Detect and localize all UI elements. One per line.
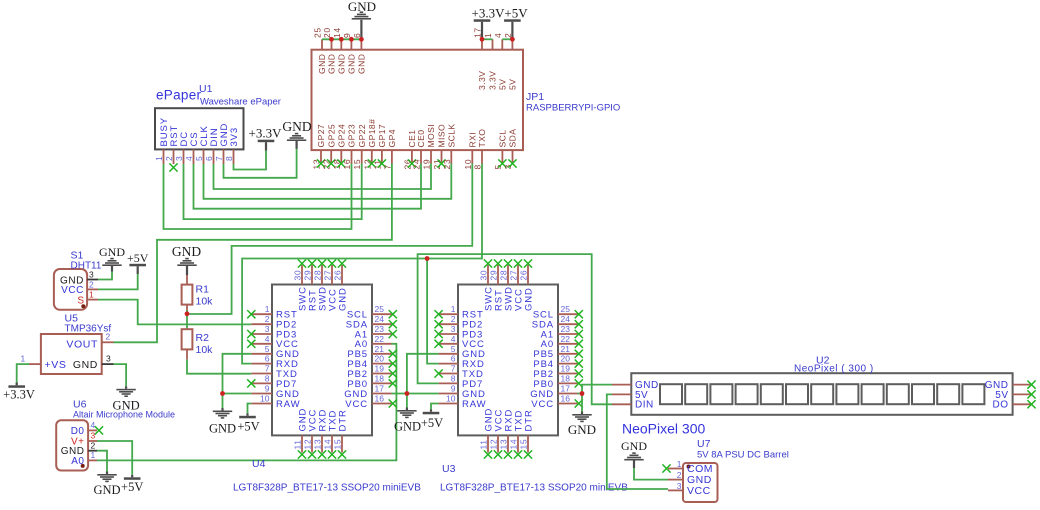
wire U1 GND to ground — [224, 149, 297, 178]
svg-text:4: 4 — [184, 156, 194, 161]
U3 pin 12 VCC (no-connect X) — [497, 435, 499, 452]
svg-text:10k: 10k — [196, 296, 214, 308]
svg-text:GND: GND — [337, 287, 348, 311]
wire JP1 TXO to U4 RXD and U3 RXD — [242, 164, 482, 364]
svg-text:NeoPixel ( 300 ): NeoPixel ( 300 ) — [794, 364, 874, 375]
U3 pin 15 DTR (no-connect X) — [527, 435, 529, 452]
junction R1-R2 divider — [185, 311, 190, 316]
svg-text:28: 28 — [313, 270, 323, 281]
JP1 bottom pin 18 GP24 (no-connect X) — [340, 150, 342, 163]
U4 pin 3 PD3 — [251, 333, 272, 335]
svg-text:+5V: +5V — [421, 416, 443, 430]
svg-text:1: 1 — [483, 33, 493, 38]
wire JP1 3.3V bus — [482, 38, 493, 40]
U3 pin 4 VCC — [439, 343, 458, 345]
JP1 top pin 9 GND — [350, 39, 352, 49]
wire JP1 top GND bus — [322, 38, 361, 40]
U3 pin 27 VCC (no-connect X) — [517, 265, 519, 285]
svg-text:10: 10 — [446, 394, 456, 404]
svg-text:2: 2 — [677, 470, 682, 480]
wire U4 GND pins to ground — [223, 354, 252, 408]
svg-text:8: 8 — [224, 156, 234, 161]
svg-text:GND: GND — [172, 244, 201, 259]
U5 pin 2 VOUT — [102, 341, 114, 343]
U2 pin 5V (right, no-connect X) — [1013, 393, 1031, 395]
U2 pin DO (right, no-connect X) — [1013, 403, 1031, 405]
JP1 top pin 6 GND — [360, 39, 362, 49]
svg-text:JP1: JP1 — [526, 91, 544, 103]
U4 pin 28 SWD (no-connect X) — [321, 265, 323, 285]
U2 pin DIN (left) — [612, 403, 631, 405]
JP1 bottom pin 3 SDA (no-connect X) — [512, 150, 514, 163]
svg-text:SDA: SDA — [508, 129, 518, 148]
svg-text:VOUT: VOUT — [66, 338, 98, 350]
U3 pin 21 PB5 — [558, 353, 578, 355]
U4 pin 9 GND — [251, 393, 272, 395]
svg-text:DO: DO — [993, 400, 1009, 411]
svg-text:2: 2 — [106, 332, 111, 342]
JP1 bottom pin 11 GP17 (no-connect X) — [381, 150, 383, 163]
wire U6 V+ to +5V — [97, 441, 132, 475]
JP1 bottom pin 12 GP18# (no-connect X) — [371, 150, 373, 163]
wire U1 BUSY to JP1 GP23 — [164, 164, 352, 230]
svg-text:GP4: GP4 — [387, 129, 397, 147]
svg-text:GP23: GP23 — [347, 124, 357, 148]
svg-text:26: 26 — [333, 270, 343, 281]
svg-text:U7: U7 — [697, 438, 711, 450]
svg-text:GP24: GP24 — [337, 124, 347, 148]
wire U5 GND to ground — [114, 364, 127, 386]
svg-text:GP22: GP22 — [357, 124, 367, 148]
svg-text:GND: GND — [568, 422, 596, 437]
svg-text:DTR: DTR — [337, 409, 348, 431]
U3 pin 1 RST — [439, 313, 458, 315]
IC U3 LGT8F328P body — [458, 285, 558, 436]
svg-text:MOSI: MOSI — [426, 124, 436, 148]
svg-text:+3.3V: +3.3V — [472, 6, 506, 21]
junction NeoPixel GND — [580, 391, 585, 396]
svg-text:CE0: CE0 — [416, 130, 426, 148]
wire U6 A0 to U4 A0 — [97, 344, 396, 461]
U3 pin 24 SDA — [558, 323, 578, 325]
U4 pin 21 PB5 — [372, 353, 392, 355]
svg-text:GND: GND — [282, 119, 311, 134]
svg-text:7: 7 — [214, 156, 224, 161]
svg-text:27: 27 — [509, 270, 519, 281]
JP1 top pin 1 3.3V — [492, 39, 494, 49]
U3 pin 5 GND — [439, 353, 458, 355]
U4 pin 15 DTR (no-connect X) — [341, 435, 343, 452]
JP1 bottom pin 24 CE0 — [420, 150, 422, 163]
U3 pin 30 SWC (no-connect X) — [487, 265, 489, 285]
U4 pin 8 PD7 — [251, 382, 272, 384]
U4 pin 20 PB4 — [372, 363, 392, 365]
svg-text:9: 9 — [451, 384, 456, 394]
U7 pin 2 GND — [668, 479, 683, 481]
svg-text:GND: GND — [347, 54, 357, 74]
JP1 top pin 2 5V — [511, 39, 513, 49]
ground symbol GND (below U4) — [221, 408, 223, 411]
svg-text:19: 19 — [561, 364, 571, 374]
svg-text:GND: GND — [209, 422, 236, 436]
svg-text:27: 27 — [323, 270, 333, 281]
svg-text:5: 5 — [451, 344, 456, 354]
JP1 bottom pin 10 RXI — [471, 150, 473, 163]
svg-text:GND: GND — [357, 54, 367, 74]
svg-text:15: 15 — [352, 159, 362, 170]
U6 pin 2 GND — [88, 450, 97, 452]
svg-text:14: 14 — [332, 27, 342, 38]
svg-text:SCLK: SCLK — [447, 123, 457, 147]
svg-text:GND: GND — [317, 54, 327, 74]
U3 pin 20 PB4 — [558, 363, 578, 365]
junction U4 GND — [220, 391, 225, 396]
svg-text:3.3V: 3.3V — [488, 71, 498, 90]
svg-text:VCC: VCC — [345, 399, 368, 410]
U3 pin 9 GND — [439, 393, 458, 395]
svg-text:12: 12 — [489, 439, 499, 450]
U6 pin1 marker dot — [81, 464, 85, 468]
wire U1 CS to JP1 CE0 — [194, 164, 422, 209]
wire U2 GND to U3 GND pin 17 and ground — [582, 385, 612, 412]
wire U5 +VS to +3.3V — [17, 364, 29, 385]
S1 pin1 marker dot — [81, 304, 85, 308]
wire U1 DIN to JP1 MOSI — [214, 164, 432, 190]
U1 pin 1 BUSY — [163, 149, 165, 164]
wire U3 PD7 to NeoPixel DIN — [418, 254, 612, 404]
svg-text:+5V: +5V — [237, 420, 259, 434]
power symbol +5V (left of U3) — [430, 410, 432, 412]
U4 pin 1 RST — [251, 313, 272, 315]
U3 pin 13 RXD (no-connect X) — [507, 435, 509, 452]
U1 pin 4 CS — [193, 149, 195, 164]
svg-text:D0: D0 — [71, 426, 85, 437]
junction mid GND — [405, 391, 410, 396]
JP1 bottom pin 5 SCL (no-connect X) — [501, 150, 503, 163]
U3 pin 14 TXD (no-connect X) — [517, 435, 519, 452]
U3 pin 26 GND (no-connect X) — [527, 265, 529, 285]
svg-text:GP17: GP17 — [377, 124, 387, 148]
svg-text:10k: 10k — [196, 344, 214, 356]
svg-text:U3: U3 — [442, 463, 456, 475]
svg-text:18: 18 — [375, 373, 385, 383]
JP1 top pin 20 GND — [331, 39, 333, 49]
svg-text:22: 22 — [561, 334, 571, 344]
svg-text:30: 30 — [293, 270, 303, 281]
svg-text:25: 25 — [375, 304, 385, 314]
svg-text:23: 23 — [375, 324, 385, 334]
svg-text:ePaper: ePaper — [156, 88, 202, 103]
U2 pin GND (left) — [612, 384, 631, 386]
svg-text:GP25: GP25 — [326, 124, 336, 148]
svg-text:+VS: +VS — [45, 359, 67, 371]
U4 pin 19 PB2 — [372, 373, 392, 375]
svg-text:7: 7 — [265, 364, 270, 374]
U3 pin 17 GND — [558, 393, 578, 395]
U4 pin 10 RAW — [251, 403, 272, 405]
svg-text:19: 19 — [422, 159, 432, 170]
svg-text:VCC: VCC — [687, 485, 711, 497]
svg-text:2: 2 — [265, 314, 270, 324]
U7 pin 3 VCC — [668, 489, 683, 491]
U7 pin1 marker dot — [687, 465, 691, 469]
svg-text:GP18#: GP18# — [367, 119, 377, 148]
svg-text:19: 19 — [375, 364, 385, 374]
svg-text:8: 8 — [473, 164, 483, 169]
svg-text:SCL: SCL — [498, 130, 508, 148]
svg-text:9: 9 — [265, 384, 270, 394]
ground symbol GND (below U3 pin17) — [581, 412, 583, 415]
svg-text:2: 2 — [89, 280, 94, 290]
junction 3.3V bus — [480, 37, 485, 42]
U4 pin 12 VCC (no-connect X) — [311, 435, 313, 452]
svg-text:25: 25 — [561, 304, 571, 314]
U6 pin 3 V+ — [88, 440, 97, 442]
JP1 bottom pin 19 MOSI — [430, 150, 432, 163]
U4 pin 2 PD2 — [251, 323, 272, 325]
U4 pin 29 RST (no-connect X) — [311, 265, 313, 285]
U3 pin 3 PD3 — [439, 333, 458, 335]
U5 pin 1 +VS — [29, 363, 41, 365]
svg-text:6: 6 — [204, 156, 214, 161]
wire S1 GND to ground — [98, 272, 112, 280]
svg-text:4: 4 — [493, 33, 503, 38]
svg-text:3: 3 — [174, 156, 184, 161]
svg-text:21: 21 — [375, 344, 385, 354]
U2 pin 5V (left) — [612, 393, 631, 395]
svg-text:2: 2 — [451, 314, 456, 324]
svg-text:29: 29 — [489, 270, 499, 281]
U2 pin GND (right, no-connect X) — [1013, 384, 1031, 386]
U4 pin 4 VCC — [251, 343, 272, 345]
sensor U5 TMP36Ysf body — [41, 334, 102, 374]
svg-text:16: 16 — [375, 394, 385, 404]
U4 pin 25 SCL — [372, 313, 392, 315]
svg-text:5: 5 — [265, 344, 270, 354]
U4 pin 23 A1 — [372, 333, 392, 335]
svg-text:GND: GND — [327, 54, 337, 74]
JP1 top pin 25 GND — [321, 39, 323, 49]
JP1 bottom pin 26 CE1 (no-connect X) — [411, 150, 413, 163]
wire U7 GND to ground — [634, 468, 668, 480]
U5 pin 3 GND — [102, 363, 114, 365]
svg-text:12: 12 — [303, 439, 313, 450]
wire R2 to U4 TXD — [187, 360, 251, 374]
svg-text:DHT11: DHT11 — [71, 261, 102, 272]
resistor R1 — [186, 275, 188, 285]
wire U2 5V to U7 VCC — [607, 394, 668, 489]
svg-text:3: 3 — [265, 324, 270, 334]
svg-text:GND: GND — [99, 245, 125, 259]
S1 pin 1 S — [87, 299, 98, 301]
U3 pin 6 RXD — [439, 363, 458, 365]
svg-text:VCC: VCC — [531, 399, 554, 410]
svg-text:+5V: +5V — [121, 480, 143, 494]
U4 pin 22 A0 — [372, 343, 392, 345]
JP1 top pin 14 GND — [340, 39, 342, 49]
U3 pin 28 SWD (no-connect X) — [507, 265, 509, 285]
wire U3 RAW to +5V — [431, 404, 439, 410]
svg-text:8: 8 — [265, 373, 270, 383]
svg-text:30: 30 — [479, 270, 489, 281]
JP1 top pin 17 3.3V — [481, 39, 483, 49]
svg-text:GND: GND — [523, 287, 534, 311]
svg-text:14: 14 — [509, 439, 519, 450]
svg-text:28: 28 — [499, 270, 509, 281]
svg-text:24: 24 — [561, 314, 571, 324]
svg-text:U1: U1 — [199, 83, 213, 95]
svg-text:14: 14 — [323, 439, 333, 450]
svg-text:+5V: +5V — [127, 251, 149, 265]
svg-text:GND: GND — [337, 54, 347, 74]
U3 pin 19 PB2 — [558, 373, 578, 375]
U4 pin 6 RXD — [251, 363, 272, 365]
module U6 Altair Microphone body — [56, 420, 88, 470]
JP1 bottom pin 22 GP25 (no-connect X) — [330, 150, 332, 163]
svg-text:U4: U4 — [252, 458, 266, 470]
U4 pin 30 SWC (no-connect X) — [301, 265, 303, 285]
U3 pin 29 RST (no-connect X) — [497, 265, 499, 285]
svg-text:11: 11 — [293, 439, 303, 449]
U4 pin 13 RXD (no-connect X) — [321, 435, 323, 452]
U4 pin 27 VCC (no-connect X) — [331, 265, 333, 285]
svg-text:2: 2 — [164, 156, 174, 161]
sensor S1 DHT11 body — [54, 269, 87, 310]
svg-text:4: 4 — [91, 420, 96, 430]
svg-text:25: 25 — [313, 27, 323, 38]
U4 pin 16 VCC — [372, 403, 392, 405]
junction on GND bus — [329, 37, 334, 42]
svg-text:RXI: RXI — [468, 132, 478, 148]
svg-text:1: 1 — [91, 450, 96, 460]
U1 pin 8 3V3 — [233, 149, 235, 164]
svg-text:NeoPixel 300: NeoPixel 300 — [622, 421, 705, 437]
svg-text:23: 23 — [442, 159, 452, 170]
ground symbol GND (between U4 and U3) — [406, 408, 408, 411]
svg-text:17: 17 — [561, 384, 571, 394]
svg-text:+5V: +5V — [504, 6, 528, 21]
svg-text:13: 13 — [313, 439, 323, 450]
svg-text:GND: GND — [394, 420, 421, 434]
U3 pin 10 RAW — [439, 403, 458, 405]
JP1 bottom pin 15 GP22 — [361, 150, 363, 163]
U6 pin 1 A0 — [88, 459, 97, 461]
JP1 bottom pin 21 MISO (no-connect X) — [441, 150, 443, 163]
U3 pin 23 A1 — [558, 333, 578, 335]
svg-text:16: 16 — [561, 394, 571, 404]
svg-text:5V 8A PSU DC Barrel: 5V 8A PSU DC Barrel — [697, 450, 789, 461]
svg-text:R2: R2 — [196, 332, 210, 344]
svg-text:3V3: 3V3 — [229, 127, 240, 147]
U1 pin 7 GND — [223, 149, 225, 164]
JP1 bottom pin 13 GP27 (no-connect X) — [320, 150, 322, 163]
wire U1 3V3 to +3.3V — [234, 151, 267, 170]
svg-text:5V: 5V — [508, 79, 518, 90]
svg-text:24: 24 — [412, 159, 422, 170]
svg-text:3: 3 — [106, 354, 111, 364]
U3 pin 16 VCC — [558, 403, 578, 405]
svg-text:GND: GND — [621, 439, 647, 453]
svg-text:3: 3 — [677, 481, 682, 491]
svg-text:10: 10 — [463, 159, 473, 170]
U4 pin 26 GND (no-connect X) — [341, 265, 343, 285]
svg-text:LGT8F328P_BTE17-13 SSOP20 mini: LGT8F328P_BTE17-13 SSOP20 miniEVB — [233, 483, 421, 494]
wire JP1 5V bus — [502, 38, 512, 40]
svg-text:1: 1 — [265, 304, 270, 314]
svg-text:20: 20 — [375, 354, 385, 364]
svg-text:3: 3 — [91, 431, 96, 441]
connector JP1 RASPBERRYPI-GPIO body — [312, 50, 524, 150]
wire divider to JP1 RXI — [187, 164, 472, 315]
svg-text:GP27: GP27 — [316, 124, 326, 148]
svg-text:7: 7 — [382, 164, 392, 169]
wire S1 VCC to +5V — [98, 274, 138, 289]
svg-text:MISO: MISO — [437, 124, 447, 148]
svg-text:3: 3 — [451, 324, 456, 334]
svg-text:16: 16 — [342, 159, 352, 170]
U3 pin 7 TXD — [439, 373, 458, 375]
IC U1 Waveshare ePaper body — [155, 108, 244, 149]
U4 pin 5 GND — [251, 353, 272, 355]
U4 pin 24 SDA — [372, 323, 392, 325]
JP1 bottom pin 7 GP4 — [391, 150, 393, 163]
power symbol +3.3V (bottom left) — [8, 385, 25, 388]
svg-text:+3.3V: +3.3V — [249, 126, 283, 141]
svg-text:5V: 5V — [498, 79, 508, 90]
S1 pin 3 GND — [87, 279, 98, 281]
svg-text:20: 20 — [561, 354, 571, 364]
svg-text:13: 13 — [499, 439, 509, 450]
svg-text:18: 18 — [561, 373, 571, 383]
U3 pin 25 SCL — [558, 313, 578, 315]
svg-text:4: 4 — [451, 334, 456, 344]
IC U4 LGT8F328P body — [272, 285, 372, 436]
wire U4 RAW to +5V — [248, 404, 252, 414]
JP1 bottom pin 8 TXO — [481, 150, 483, 163]
U3 pin 2 PD2 — [439, 323, 458, 325]
svg-text:GND: GND — [93, 483, 120, 497]
U3 pin 8 PD7 — [439, 382, 458, 384]
svg-text:DTR: DTR — [523, 409, 534, 431]
U3 pin 18 PB0 — [558, 382, 578, 384]
svg-text:10: 10 — [260, 394, 270, 404]
wire U1 DC to JP1 GP22 — [184, 164, 362, 220]
svg-text:1: 1 — [677, 459, 682, 469]
svg-text:3.3V: 3.3V — [477, 71, 487, 90]
svg-text:6: 6 — [451, 354, 456, 364]
svg-text:7: 7 — [451, 364, 456, 374]
U1 pin 3 DC — [183, 149, 185, 164]
power symbol +5V (below U6) — [131, 475, 133, 478]
U1 pin 5 CLK — [203, 149, 205, 164]
svg-text:11: 11 — [479, 439, 489, 449]
junction 5V bus — [510, 37, 515, 42]
svg-text:TXO: TXO — [477, 129, 487, 148]
svg-text:15: 15 — [519, 439, 529, 450]
svg-text:R1: R1 — [196, 284, 210, 296]
svg-text:8: 8 — [451, 373, 456, 383]
svg-text:Waveshare ePaper: Waveshare ePaper — [200, 97, 281, 108]
svg-text:6: 6 — [265, 354, 270, 364]
svg-text:1: 1 — [89, 290, 94, 300]
JP1 top pin 4 5V — [501, 39, 503, 49]
U4 pin 17 GND — [372, 393, 392, 395]
U1 pin 6 DIN — [213, 149, 215, 164]
svg-text:15: 15 — [333, 439, 343, 450]
wire U6 GND to ground — [97, 451, 107, 472]
U3 pin 22 A0 — [558, 343, 578, 345]
ground symbol GND (below U5) — [125, 386, 127, 389]
